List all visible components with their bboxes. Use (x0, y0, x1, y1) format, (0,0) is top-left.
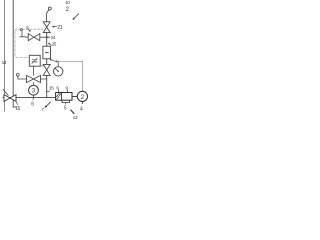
svg-text:13: 13 (73, 115, 78, 120)
wire: V3 down to circle 3 (33, 83, 35, 86)
wire: box to motor circle (72, 95, 77, 97)
wire: V3 right tip to main line (41, 78, 47, 80)
svg-text:9: 9 (65, 85, 68, 91)
wire: C3 stem to bottom run (33, 95, 35, 98)
svg-text:4: 4 (80, 106, 83, 112)
tick and label 24 (47, 36, 50, 38)
valve V3 (horizontal bowtie) (27, 75, 41, 82)
leader arrow from label 2 (74, 14, 79, 19)
main vertical pipe (upper) (46, 33, 48, 47)
wire: curve from dot down to valve V1 (47, 10, 50, 22)
bottom run wire (3, 97, 56, 99)
tick and label 4 under CM (81, 102, 83, 104)
svg-text:16: 16 (15, 106, 20, 112)
wire: V2 right tip to main line (40, 36, 47, 38)
wire: gauge stem (57, 61, 59, 66)
wire: small circle to valve V3 (18, 76, 27, 79)
svg-text:6: 6 (56, 85, 59, 91)
leader into valve V4 (3, 89, 8, 95)
valve V1 (top vertical bowtie) (43, 22, 50, 33)
arrow at valve V1 right (53, 26, 57, 28)
svg-text:5: 5 (64, 105, 67, 111)
svg-text:2: 2 (81, 94, 85, 101)
gauge G (circle with needle) (54, 67, 63, 76)
arrow inside R1 (46, 52, 48, 54)
label 6 (under C3) (32, 98, 34, 100)
valve V4 (bottom-left bowtie) (4, 95, 16, 102)
svg-text:14: 14 (2, 60, 7, 66)
vent symbol inside dashed box (20, 29, 22, 31)
bracket under box with label 5 (62, 100, 70, 102)
leader arrow and label 7 (bottom middle) (46, 102, 50, 106)
small circle component (left) (16, 73, 19, 76)
component B2 (box with symbol) (29, 55, 40, 66)
motor circle CM (77, 91, 87, 101)
dashed enclosure box (15, 29, 44, 31)
component BB (bottom box / pump unit) (56, 93, 72, 101)
svg-text:2: 2 (66, 7, 70, 13)
component C3 (circle with 3) (29, 85, 39, 95)
svg-text:21: 21 (57, 25, 62, 31)
main vertical pipe (lower) (46, 75, 48, 97)
tick and label 15 (47, 91, 50, 93)
svg-text:24: 24 (51, 35, 56, 40)
wire: horizontal run to the right side (57, 60, 83, 62)
svg-text:7: 7 (41, 107, 44, 113)
label 16 (16, 102, 18, 105)
junction dot (46, 36, 48, 38)
svg-text:6: 6 (31, 101, 34, 107)
leader arrow and label 25 (49, 44, 51, 46)
wire: B2 box bottom connector (40, 65, 44, 67)
pipe A (left outer vertical line) (4, 0, 6, 111)
leader and label 13 (bottom right) (71, 110, 74, 114)
leader diagonal at R1 bottom corner (51, 60, 56, 62)
node: reference dot 20 (top) (48, 7, 51, 10)
component R1 (rectangle on main line) (43, 46, 51, 59)
main vertical pipe (below R1) (46, 59, 48, 65)
wire: B2 down to valve V3 (33, 66, 35, 75)
svg-text:25: 25 (52, 41, 57, 46)
valve V5 (vertical bowtie on main line) (43, 64, 50, 75)
valve V2 (horizontal bowtie in dashed box) (28, 34, 40, 41)
svg-text:5: 5 (26, 25, 29, 30)
wire: right vertical down to motor circle (82, 61, 84, 91)
svg-text:15: 15 (49, 86, 54, 92)
junction dot at gauge branch (56, 60, 58, 62)
svg-text:10: 10 (65, 0, 70, 5)
pipe B (left inner vertical line) (13, 0, 16, 107)
